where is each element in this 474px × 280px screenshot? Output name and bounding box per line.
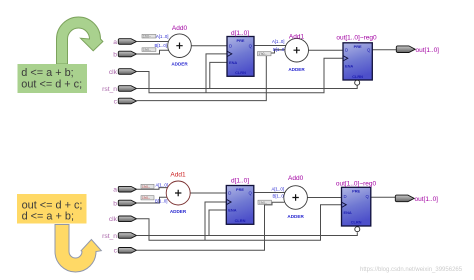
green U-turn arrow annotation [57, 17, 103, 64]
svg-text:out[1..0]~reg0: out[1..0]~reg0 [336, 35, 377, 42]
svg-text:D: D [228, 190, 231, 195]
svg-text:1'h0--: 1'h0-- [143, 48, 151, 52]
wire Add0 output to out reg D (bottom) [307, 197, 341, 199]
bus adapter box on a (bottom) [141, 184, 154, 188]
svg-text:d <= a + b;: d <= a + b; [22, 211, 74, 223]
svg-text:CLRN: CLRN [235, 70, 246, 75]
input pin clk (top) [118, 69, 136, 75]
input pin a (bottom) [118, 186, 136, 192]
svg-text:Add0: Add0 [288, 175, 304, 182]
svg-text:out[1..0]~reg0: out[1..0]~reg0 [336, 181, 377, 188]
svg-text:b: b [113, 51, 117, 58]
svg-text:B[1..0]: B[1..0] [273, 47, 285, 52]
bus adapter box on b (bottom) [141, 196, 154, 200]
svg-text:B[1..0]: B[1..0] [273, 194, 285, 199]
yellow code box [17, 194, 87, 224]
svg-text:CLRN: CLRN [352, 74, 363, 79]
wire a to Add1 (bottom) [137, 188, 168, 190]
svg-text:PRE: PRE [352, 189, 360, 194]
svg-text:PRE: PRE [237, 38, 245, 43]
green code box [18, 64, 88, 93]
CLRN bubble (bottom out reg) [355, 227, 360, 232]
svg-text:https://blog.csdn.net/weixin_3: https://blog.csdn.net/weixin_39956265 [360, 267, 463, 273]
svg-text:a: a [113, 187, 117, 194]
adder Add0 (bottom) [284, 186, 308, 210]
wire clk branch to d reg clock (top) [206, 54, 227, 93]
svg-text:ENA: ENA [229, 60, 237, 65]
wire b to Add0 (top) [137, 50, 169, 54]
svg-text:D: D [229, 43, 232, 48]
svg-text:A[1..0]: A[1..0] [272, 39, 284, 44]
wire d reg Q to Add1 A (top) [254, 45, 286, 47]
wire out reg Q to output pin (top) [372, 49, 398, 51]
svg-text:ADDER: ADDER [170, 209, 187, 214]
wire rst_n net (top) [137, 85, 358, 88]
wire rst_n net (bottom) [137, 232, 358, 235]
input pin b (top) [118, 51, 136, 57]
bus adapter box on c (bottom) [258, 200, 272, 204]
svg-text:d[1..0]: d[1..0] [231, 30, 249, 37]
svg-text:out[1..0]: out[1..0] [415, 196, 439, 203]
wire Add1 output to out reg D (top) [309, 49, 344, 51]
svg-text:ADDER: ADDER [288, 67, 305, 72]
wire Add1 output to d reg D (bottom) [190, 192, 226, 194]
svg-text:clk: clk [109, 216, 118, 223]
svg-text:Add0: Add0 [172, 25, 188, 32]
output pin out[1..0] (bottom) [395, 195, 414, 202]
input pin rst_n (top) [118, 86, 136, 92]
adder Add1 highlighted red (bottom) [166, 181, 190, 205]
register out[1..0]~reg0 (bottom) [342, 187, 371, 226]
svg-text:d <= a + b;: d <= a + b; [21, 67, 73, 79]
adder Add0 (top) [168, 34, 192, 58]
svg-text:1'h0--: 1'h0-- [259, 52, 267, 56]
svg-text:CLRN: CLRN [235, 218, 246, 223]
input pin c (top) [118, 98, 136, 104]
input pin a (top) [118, 39, 136, 45]
register d[1..0] (bottom) [226, 186, 254, 225]
output pin out[1..0] (top) [396, 46, 415, 53]
svg-text:ENA: ENA [344, 210, 352, 215]
svg-text:ENA: ENA [228, 208, 236, 213]
svg-text:B[1..0]: B[1..0] [155, 43, 167, 48]
input pin rst_n (bottom) [118, 233, 136, 239]
svg-text:out[1..0]: out[1..0] [416, 47, 440, 54]
svg-text:Add1: Add1 [170, 172, 186, 179]
input pin clk (bottom) [118, 216, 136, 222]
svg-text:ADDER: ADDER [287, 214, 304, 219]
wire clk branch to d reg clock (bottom) [205, 202, 226, 240]
wire Add0 output to d reg D (top) [191, 45, 227, 47]
bus adapter box on b (top) [142, 48, 156, 52]
register out[1..0]~reg0 (top) [343, 43, 372, 80]
wire clk net (top) [137, 58, 344, 93]
svg-text:1'h0--: 1'h0-- [142, 196, 150, 200]
svg-text:A[1..0]: A[1..0] [156, 34, 168, 39]
svg-text:a: a [113, 39, 117, 46]
bus adapter box on a (top) [142, 34, 156, 38]
wire d reg Q to Add0 A (bottom) [254, 192, 285, 194]
CLRN bubble (top out reg) [355, 80, 360, 85]
svg-text:1'h0--: 1'h0-- [259, 201, 267, 205]
svg-text:Add1: Add1 [289, 34, 305, 41]
input pin b (bottom) [118, 200, 136, 206]
svg-text:1'h0--: 1'h0-- [143, 35, 151, 39]
svg-text:CLRN: CLRN [351, 220, 362, 225]
svg-text:b: b [113, 200, 117, 207]
yellow U-turn arrow annotation [55, 225, 101, 273]
svg-text:D: D [345, 48, 348, 53]
svg-text:out <= d + c;: out <= d + c; [22, 199, 83, 211]
wire rst_n branch to d reg ENA (top) [210, 62, 227, 88]
register d[1..0] (top) [227, 37, 254, 77]
svg-text:rst_n: rst_n [102, 233, 117, 240]
svg-text:ENA: ENA [345, 64, 353, 69]
svg-text:1'h0--: 1'h0-- [142, 185, 150, 189]
svg-text:d[1..0]: d[1..0] [231, 178, 249, 185]
svg-text:A[1..0]: A[1..0] [156, 182, 168, 187]
wire out reg Q to output pin (bottom) [371, 196, 397, 198]
wire a to Add0 (top) [137, 41, 169, 43]
bus adapter box on c (top) [258, 52, 272, 56]
wire b to Add1 (bottom) [137, 197, 168, 203]
svg-text:clk: clk [109, 69, 118, 76]
svg-text:PRE: PRE [236, 187, 244, 192]
input pin c (bottom) [118, 248, 136, 254]
svg-text:PRE: PRE [354, 44, 362, 49]
wire c net to Add0 B (bottom) [137, 202, 285, 250]
svg-text:ADDER: ADDER [171, 62, 188, 67]
wire clk net (bottom) [137, 205, 342, 241]
svg-text:out <= d + c;: out <= d + c; [21, 79, 82, 91]
svg-text:D: D [344, 194, 347, 199]
adder Add1 (top) [285, 38, 309, 62]
svg-text:B[1..0]: B[1..0] [155, 199, 167, 204]
svg-text:rst_n: rst_n [102, 86, 117, 93]
wire rst_n branch to d reg ENA (bottom) [209, 210, 226, 236]
svg-text:A[1..0]: A[1..0] [272, 187, 284, 192]
wire c net to Add1 B (top) [137, 50, 286, 101]
